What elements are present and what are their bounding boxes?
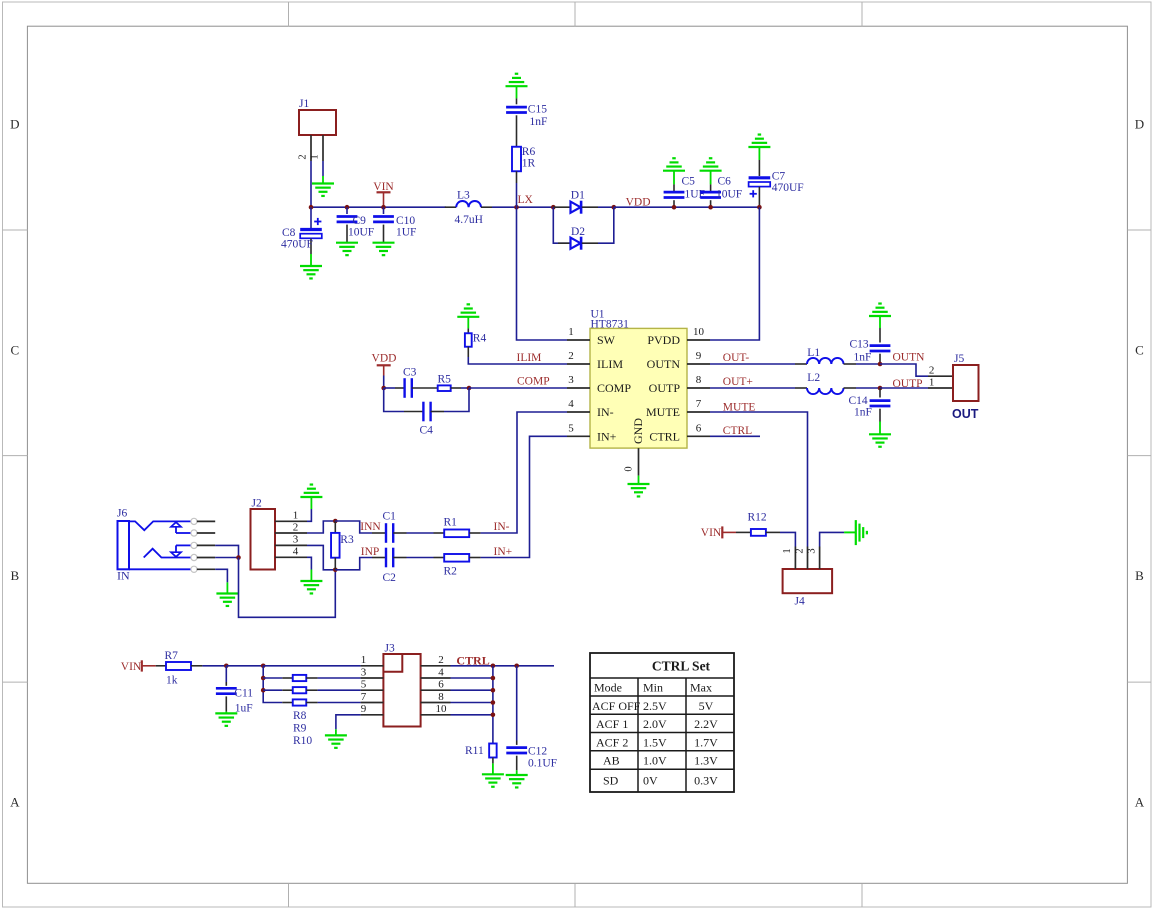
- capacitor C13: [879, 316, 881, 328]
- node CTRL at R11: [491, 664, 496, 669]
- wire J2 pin3 to INP node: [307, 545, 335, 569]
- connector J4: [783, 569, 833, 593]
- capacitor C3: [384, 387, 395, 389]
- svg-text:VIN: VIN: [121, 661, 142, 673]
- pin 2 of J3: [421, 665, 451, 667]
- svg-text:C12: C12: [528, 745, 547, 757]
- pin 5 of J3: [361, 689, 384, 691]
- svg-text:1R: 1R: [522, 157, 536, 169]
- wire OUTP from pin 8: [710, 387, 795, 389]
- svg-text:ACF OFF: ACF OFF: [592, 699, 641, 713]
- wire C11 node to bus node: [226, 665, 263, 667]
- wire J1 pin1 to ground: [322, 161, 324, 176]
- svg-text:470UF: 470UF: [281, 239, 313, 251]
- svg-text:5: 5: [568, 423, 574, 435]
- svg-text:J1: J1: [299, 98, 309, 110]
- wire J3 pin9 to ground: [336, 715, 361, 730]
- svg-text:5: 5: [361, 679, 367, 691]
- svg-text:C14: C14: [849, 395, 868, 407]
- wire bus vertical: [263, 666, 282, 703]
- svg-text:L3: L3: [457, 189, 470, 201]
- svg-text:ILIM: ILIM: [517, 352, 542, 364]
- wire C4 to COMP node: [444, 388, 469, 412]
- svg-text:1: 1: [782, 548, 793, 553]
- svg-text:0: 0: [624, 466, 635, 471]
- node VIN at C8: [309, 205, 314, 210]
- svg-text:COMP: COMP: [517, 375, 550, 387]
- inductor L3: [445, 206, 457, 208]
- pin 2 of J1: [310, 135, 312, 161]
- svg-text:C: C: [10, 343, 19, 358]
- ground below U1: [638, 476, 640, 484]
- svg-text:R9: R9: [293, 723, 307, 735]
- svg-text:C9: C9: [353, 215, 367, 227]
- ground below C11: [225, 712, 227, 714]
- svg-text:L2: L2: [807, 372, 820, 384]
- pin 3 of J2: [275, 544, 307, 546]
- node at C6: [708, 205, 713, 210]
- svg-text:A: A: [10, 795, 20, 810]
- pin 4 of J3: [421, 677, 451, 679]
- pin 3 COMP of U1: [567, 387, 590, 389]
- inductor L1: [795, 363, 807, 365]
- svg-text:1: 1: [310, 154, 321, 159]
- svg-text:J3: J3: [385, 642, 395, 654]
- diode D1: [553, 206, 570, 208]
- svg-text:A: A: [1135, 795, 1145, 810]
- wire CTRL row: [451, 665, 555, 667]
- wire J2 pin4 to ground: [307, 557, 311, 569]
- svg-text:9: 9: [696, 350, 702, 362]
- svg-text:2: 2: [794, 548, 805, 553]
- svg-text:D2: D2: [571, 226, 585, 238]
- connector J3: [383, 654, 420, 727]
- svg-text:2.5V: 2.5V: [643, 699, 667, 713]
- svg-text:IN+: IN+: [597, 430, 617, 444]
- svg-text:C: C: [1135, 343, 1144, 358]
- svg-text:OUT-: OUT-: [723, 352, 750, 364]
- diode D2: [558, 242, 571, 244]
- svg-text:ACF 1: ACF 1: [596, 717, 628, 731]
- svg-text:R5: R5: [438, 373, 452, 385]
- node OUTN: [878, 362, 883, 367]
- svg-text:9: 9: [361, 703, 367, 715]
- pin 8 of J3: [421, 702, 451, 704]
- svg-text:C15: C15: [528, 104, 547, 116]
- svg-text:C7: C7: [772, 171, 786, 183]
- svg-text:C5: C5: [682, 175, 696, 187]
- resistor R11: [489, 744, 497, 758]
- svg-text:R10: R10: [293, 735, 312, 747]
- capacitor C5: [673, 171, 675, 185]
- wire R1 to IN- pin: [481, 412, 567, 533]
- wire J2 pin2 to INN node: [307, 521, 335, 533]
- svg-text:1: 1: [568, 326, 574, 338]
- svg-text:IN-: IN-: [494, 521, 510, 533]
- node CTRL at C12: [514, 664, 519, 669]
- svg-text:R4: R4: [473, 333, 487, 345]
- node rail y702: [491, 700, 496, 705]
- svg-text:CTRL: CTRL: [723, 425, 752, 437]
- pin 6 of J3: [421, 689, 451, 691]
- svg-text:2: 2: [438, 654, 444, 666]
- resistor R4: [467, 317, 469, 329]
- pin 7 of J3: [361, 702, 384, 704]
- svg-text:J4: J4: [795, 595, 805, 607]
- svg-text:Max: Max: [690, 681, 712, 695]
- ground right of J4: [855, 520, 857, 545]
- ground below C14: [879, 422, 881, 435]
- resistor R7: [156, 665, 166, 667]
- connector J5: [953, 365, 979, 401]
- wire ground to C15: [516, 86, 518, 98]
- capacitor C2: [372, 557, 386, 559]
- ground above C5: [663, 170, 685, 172]
- svg-text:8: 8: [696, 374, 702, 386]
- wire C2 to R2: [407, 557, 434, 559]
- svg-text:R3: R3: [340, 534, 354, 546]
- pin 10 PVDD of U1: [687, 339, 710, 341]
- node rail y690: [491, 688, 496, 693]
- node rail y678: [491, 676, 496, 681]
- svg-text:J5: J5: [954, 353, 964, 365]
- pin 9 OUTN of U1: [687, 363, 710, 365]
- svg-text:D1: D1: [571, 190, 585, 202]
- svg-text:4.7uH: 4.7uH: [455, 214, 483, 226]
- svg-text:R2: R2: [444, 565, 458, 577]
- pin 4 of J2: [275, 556, 307, 558]
- svg-text:5V: 5V: [699, 699, 714, 713]
- svg-text:D: D: [10, 117, 19, 132]
- jack ring switch contact: [144, 549, 192, 558]
- svg-text:ILIM: ILIM: [597, 357, 623, 371]
- svg-text:C11: C11: [234, 688, 253, 700]
- svg-text:1nF: 1nF: [530, 116, 548, 128]
- svg-text:OUTP: OUTP: [649, 381, 681, 395]
- svg-text:7: 7: [696, 398, 702, 410]
- svg-text:4: 4: [438, 666, 444, 678]
- wire J2 pin1 to ground above: [307, 509, 311, 521]
- svg-text:PVDD: PVDD: [647, 333, 680, 347]
- capacitor C8: [310, 207, 312, 228]
- wire L1 to OUTN node: [856, 363, 880, 365]
- node LX: [514, 205, 519, 210]
- svg-text:R11: R11: [465, 745, 484, 757]
- pin 1 of J3: [361, 665, 384, 667]
- svg-text:4: 4: [568, 398, 574, 410]
- node OUTP: [878, 386, 883, 391]
- svg-text:1.7V: 1.7V: [694, 735, 718, 749]
- svg-text:1.5V: 1.5V: [643, 735, 667, 749]
- ground below R11: [492, 763, 494, 774]
- pin 3 of J4: [819, 547, 821, 570]
- svg-text:10UF: 10UF: [716, 188, 742, 200]
- capacitor C12: [516, 666, 518, 741]
- jack tip switch contact: [175, 527, 177, 533]
- svg-text:ACF 2: ACF 2: [596, 735, 628, 749]
- connector J1: [299, 110, 336, 135]
- svg-text:1UF: 1UF: [396, 227, 416, 239]
- pin 5 IN+ of U1: [567, 435, 590, 437]
- svg-text:J2: J2: [252, 497, 262, 509]
- pin 2 ILIM of U1: [567, 363, 590, 365]
- svg-text:470UF: 470UF: [772, 182, 804, 194]
- wire VDD rail: [614, 206, 760, 208]
- ground below C9: [336, 242, 358, 244]
- svg-text:2: 2: [929, 365, 935, 377]
- svg-text:4: 4: [293, 546, 299, 558]
- svg-text:OUTN: OUTN: [893, 351, 926, 363]
- resistor R12: [736, 531, 751, 533]
- svg-text:1: 1: [929, 376, 935, 388]
- resistor R2: [434, 557, 445, 559]
- wire CTRL from pin 6: [710, 435, 760, 437]
- svg-text:1: 1: [293, 510, 299, 522]
- svg-text:1.3V: 1.3V: [694, 754, 718, 768]
- ground below C10: [373, 242, 395, 244]
- svg-text:C1: C1: [383, 510, 397, 522]
- wire VIN rail: [311, 206, 446, 208]
- wire INN node to C1: [335, 521, 372, 533]
- svg-text:C2: C2: [383, 572, 397, 584]
- svg-text:1uF: 1uF: [235, 703, 253, 715]
- svg-text:B: B: [1135, 568, 1144, 583]
- ground at J1 pin1: [312, 182, 334, 184]
- ground below jack sleeve: [216, 592, 238, 594]
- svg-text:1.0V: 1.0V: [643, 754, 667, 768]
- svg-text:IN+: IN+: [494, 546, 513, 558]
- wire R7 to C11 node: [202, 665, 226, 667]
- svg-text:J6: J6: [117, 508, 127, 520]
- wire C15 to R6: [516, 115, 518, 147]
- svg-text:1nF: 1nF: [854, 406, 872, 418]
- capacitor C14: [879, 388, 881, 398]
- pin 8 OUTP of U1: [687, 387, 710, 389]
- ground above J2 pin1: [300, 496, 322, 498]
- wire R10 to J3 pin7: [318, 702, 361, 704]
- svg-text:3: 3: [293, 534, 299, 546]
- wire R8 to J3 pin3: [318, 677, 361, 679]
- node at jack output: [236, 555, 241, 560]
- wire ring to node: [215, 545, 238, 557]
- svg-text:R6: R6: [522, 146, 536, 158]
- svg-text:VIN: VIN: [701, 527, 722, 539]
- svg-text:2.2V: 2.2V: [694, 717, 718, 731]
- jack sleeve contact: [129, 568, 191, 570]
- wire R4 to ILIM pin: [468, 357, 567, 364]
- svg-text:C10: C10: [396, 215, 415, 227]
- svg-text:0V: 0V: [643, 774, 658, 788]
- svg-text:VDD: VDD: [372, 353, 397, 365]
- node at C9: [345, 205, 350, 210]
- svg-text:CTRL Set: CTRL Set: [652, 659, 711, 674]
- svg-text:2: 2: [293, 521, 299, 533]
- table CTRL Set: [590, 653, 734, 792]
- pin 2 of J2: [275, 532, 307, 534]
- wire R5 to COMP node: [461, 387, 469, 389]
- svg-text:R12: R12: [748, 511, 767, 523]
- wire OUTP to J5 pin1: [880, 387, 928, 389]
- node bus top: [261, 664, 266, 669]
- wire J3 even pins to R11 rail: [451, 677, 493, 679]
- svg-text:C4: C4: [420, 425, 434, 437]
- svg-text:CTRL: CTRL: [649, 430, 680, 444]
- wire sleeve to ground: [215, 569, 227, 582]
- wire OUTN to J5 pin2: [880, 364, 928, 376]
- capacitor C4 branch: [384, 388, 404, 412]
- pin 9 of J3: [361, 714, 384, 716]
- svg-text:1: 1: [361, 654, 367, 666]
- wire R12 to J4 pin1: [780, 532, 795, 546]
- svg-text:2.0V: 2.0V: [643, 717, 667, 731]
- svg-text:2: 2: [568, 350, 574, 362]
- pin 1 of J2: [275, 520, 307, 522]
- svg-text:C13: C13: [850, 338, 869, 350]
- wire D2 branch: [553, 207, 570, 243]
- wire OUTN from pin 9: [710, 363, 795, 365]
- capacitor C9: [346, 207, 348, 214]
- wire jack node to INP node: [239, 558, 336, 618]
- svg-text:IN-: IN-: [597, 405, 614, 419]
- wire row1 to J3 pin1: [263, 665, 360, 667]
- wire VDD to COMP network: [383, 376, 385, 389]
- svg-text:Min: Min: [643, 681, 663, 695]
- svg-text:3: 3: [568, 374, 574, 386]
- pin 4 IN- of U1: [567, 411, 590, 413]
- wire R6 to LX: [516, 171, 518, 183]
- svg-text:C3: C3: [403, 367, 417, 379]
- node COMP left: [381, 386, 386, 391]
- ground below C12: [516, 770, 518, 775]
- svg-text:INP: INP: [361, 546, 380, 558]
- wire L3 to LX: [492, 206, 553, 208]
- wire VDD to PVDD pin: [710, 207, 759, 340]
- svg-text:AB: AB: [603, 754, 620, 768]
- svg-text:L1: L1: [807, 347, 820, 359]
- node INP at R3 bottom: [333, 568, 338, 573]
- node at C11: [224, 664, 229, 669]
- node at D1 cathode: [612, 205, 617, 210]
- pin 6 CTRL of U1: [687, 435, 710, 437]
- node bus row5: [261, 688, 266, 693]
- svg-text:7: 7: [361, 691, 367, 703]
- svg-text:10: 10: [436, 703, 448, 715]
- wire D1 to VDD node: [598, 206, 614, 208]
- svg-text:SD: SD: [603, 774, 619, 788]
- svg-text:OUTN: OUTN: [647, 357, 681, 371]
- svg-text:0.3V: 0.3V: [694, 774, 718, 788]
- node bus row3: [261, 676, 266, 681]
- node INN at R3 top: [333, 519, 338, 524]
- wire J1 pin2 to VIN rail: [310, 161, 312, 207]
- node rail y714: [491, 713, 496, 718]
- svg-text:D: D: [1135, 117, 1144, 132]
- svg-text:INN: INN: [360, 521, 381, 533]
- ground above C6: [700, 170, 722, 172]
- svg-text:MUTE: MUTE: [646, 405, 680, 419]
- capacitor C10: [383, 207, 385, 214]
- svg-text:IN: IN: [117, 568, 130, 582]
- svg-text:3: 3: [361, 666, 367, 678]
- wire LX to SW pin: [517, 207, 568, 340]
- node at C7: [757, 205, 762, 210]
- ground below J3 pin9: [325, 734, 347, 736]
- svg-text:C6: C6: [718, 175, 732, 187]
- pin 1 of J4: [794, 547, 796, 570]
- resistor R9: [263, 689, 282, 691]
- svg-text:OUT+: OUT+: [723, 376, 753, 388]
- capacitor C11: [225, 666, 227, 682]
- capacitor C15: [506, 106, 527, 109]
- pin 10 of J3: [421, 714, 451, 716]
- pin 1 SW of U1: [567, 339, 590, 341]
- wire R9 to J3 pin5: [318, 689, 361, 691]
- wire R2 to IN+ pin: [481, 436, 567, 557]
- svg-text:10: 10: [693, 326, 705, 338]
- node at C10: [381, 205, 386, 210]
- svg-text:1k: 1k: [166, 674, 178, 686]
- wire L2 to OUTP node: [856, 387, 880, 389]
- inductor L2: [795, 387, 807, 389]
- pin 1 of J5: [928, 387, 953, 389]
- svg-text:6: 6: [438, 679, 444, 691]
- svg-text:HT8731: HT8731: [591, 318, 630, 330]
- svg-text:GND: GND: [631, 418, 645, 444]
- capacitor C7 polarized: [758, 147, 760, 160]
- wire D2 cathode to VDD node: [598, 207, 614, 243]
- svg-text:B: B: [10, 568, 19, 583]
- ground above R4: [457, 316, 479, 318]
- wire C1 to R1: [407, 532, 434, 534]
- ground above C7: [748, 146, 770, 148]
- svg-text:8: 8: [438, 691, 444, 703]
- pin 2 of J4: [807, 547, 809, 570]
- pin 7 MUTE of U1: [687, 411, 710, 413]
- svg-text:OUT: OUT: [952, 407, 979, 421]
- svg-text:R8: R8: [293, 710, 307, 722]
- resistor R5: [438, 385, 451, 391]
- resistor R1: [434, 532, 445, 534]
- pin 2 of J5: [928, 375, 953, 377]
- node COMP right: [467, 386, 472, 391]
- svg-text:C8: C8: [282, 227, 296, 239]
- svg-text:COMP: COMP: [597, 381, 631, 395]
- svg-text:Mode: Mode: [594, 681, 622, 695]
- ground above C15: [506, 85, 528, 87]
- svg-text:R7: R7: [165, 650, 179, 662]
- capacitor C1: [372, 532, 386, 534]
- jack ring contact: [176, 544, 191, 546]
- svg-text:10UF: 10UF: [348, 227, 374, 239]
- svg-text:6: 6: [696, 423, 702, 435]
- wire ring switch to node: [215, 557, 238, 559]
- jack tip contact: [129, 521, 191, 530]
- wire COMP to pin 3: [469, 387, 567, 389]
- resistor R6: [512, 147, 521, 172]
- svg-text:R1: R1: [444, 516, 458, 528]
- ground above C13: [869, 315, 891, 317]
- svg-text:2: 2: [298, 154, 309, 159]
- resistor R3: [334, 521, 336, 533]
- node at D1 anode: [551, 205, 556, 210]
- svg-text:SW: SW: [597, 333, 616, 347]
- node at C5: [672, 205, 677, 210]
- op-amp U1 HT8731 body: [590, 328, 687, 448]
- wire J4 pin3 to ground: [820, 532, 845, 546]
- pin 1 of J1: [322, 135, 324, 161]
- svg-text:0.1UF: 0.1UF: [528, 757, 557, 769]
- svg-text:1nF: 1nF: [854, 351, 872, 363]
